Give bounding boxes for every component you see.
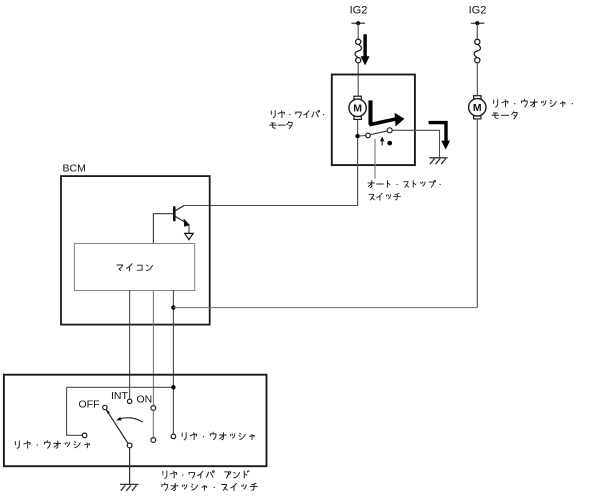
svg-text:BCM: BCM (63, 163, 86, 175)
transistor Q1 base bar (173, 206, 176, 221)
label リヤ・ウオッシャ・モータ (494, 99, 573, 107)
microcomputer box (74, 244, 194, 291)
junction dot washer sense (171, 305, 175, 309)
svg-text:OFF: OFF (79, 399, 100, 411)
wire washer sense to washer motor (horizontal) (173, 307, 477, 309)
wire ON sense (152, 291, 154, 406)
auto-stop switch contact A (366, 133, 371, 138)
wire IG2 right down (476, 23, 478, 39)
ON contact top (151, 406, 156, 411)
wire auto-stop junction down and left to BCM (183, 138, 357, 205)
transistor Q1 collector (176, 206, 184, 211)
auto-stop alternate contact dot (387, 141, 392, 146)
transistor Q1 emitter with arrow (176, 217, 187, 223)
wire switch B to ground (392, 130, 439, 157)
ground (auto-stop return) (429, 158, 447, 164)
junction dot (motor / switch / BCM) (355, 134, 359, 138)
svg-text:M: M (473, 102, 482, 114)
current-flow arrow (thick L, down) near ground (429, 121, 451, 150)
switch lever (106, 410, 128, 443)
BCM box (61, 176, 210, 325)
wire pivot to ground (129, 448, 131, 485)
junction dot on washer line (171, 385, 175, 389)
svg-text:ON: ON (137, 394, 153, 406)
wire connector to washer motor (476, 63, 478, 96)
motion arrow (thick L, right) inside wiper box (369, 100, 404, 126)
svg-text:INT: INT (111, 390, 129, 402)
wire base to microcomputer (153, 214, 173, 244)
auto-stop switch contact B (387, 128, 392, 133)
INT contact (127, 399, 131, 403)
OFF contact (103, 405, 107, 409)
rotation arc arrow (119, 418, 143, 423)
washer contact left (82, 433, 87, 438)
label リヤ・ウオッシャ (left) (15, 441, 89, 449)
wire washer sense (172, 291, 174, 435)
svg-text:IG2: IG2 (469, 5, 487, 17)
auto-stop switch lever (370, 131, 387, 135)
lever pivot (127, 443, 132, 448)
left washer branch (67, 387, 83, 435)
ON contact bottom (151, 438, 156, 443)
wire IG2 left down to connector (357, 23, 359, 39)
label リヤ・ワイパ アンド (163, 471, 249, 479)
svg-text:IG2: IG2 (350, 5, 368, 17)
wire motor to auto-stop junction (357, 119, 359, 136)
leader line to auto-stop label (374, 139, 376, 179)
wire connector to motor (357, 63, 359, 97)
label ウオッシャ・スイッチ (162, 483, 257, 491)
connector pair in wiper supply wire (355, 39, 361, 63)
ground (switch) (120, 484, 138, 490)
current-flow arrow (thick, down) at IG2 left (361, 34, 370, 65)
wire INT sense (129, 291, 131, 400)
wire between ON contacts (152, 410, 154, 437)
auto-stop alternate position: up arrow (381, 139, 383, 145)
label リヤ・ワイパ・モータ (271, 110, 324, 117)
rear wiper motor assembly box (332, 75, 415, 166)
svg-text:M: M (353, 103, 362, 115)
node IG2 left: terminal bar and junction dot (352, 22, 366, 24)
motor M1 rear wiper (349, 96, 366, 119)
wire junction to switch contact (360, 135, 366, 137)
washer contact right (171, 434, 176, 439)
internal ground triangle (185, 233, 194, 239)
motor M2 rear washer (469, 96, 486, 119)
label オート・ストップ・スイッチ (368, 180, 441, 187)
wire washer motor down to horizontal (476, 119, 478, 308)
connector pair in washer supply wire (474, 39, 480, 63)
inner top wire (67, 386, 174, 388)
label リヤ・ウオッシャ (right) (182, 432, 254, 440)
node IG2 right: terminal bar and junction dot (471, 22, 485, 24)
rear wiper and washer switch box (4, 375, 267, 467)
wire emitter down (188, 225, 190, 233)
label マイコン (117, 264, 152, 271)
lever arrowhead (106, 410, 110, 415)
